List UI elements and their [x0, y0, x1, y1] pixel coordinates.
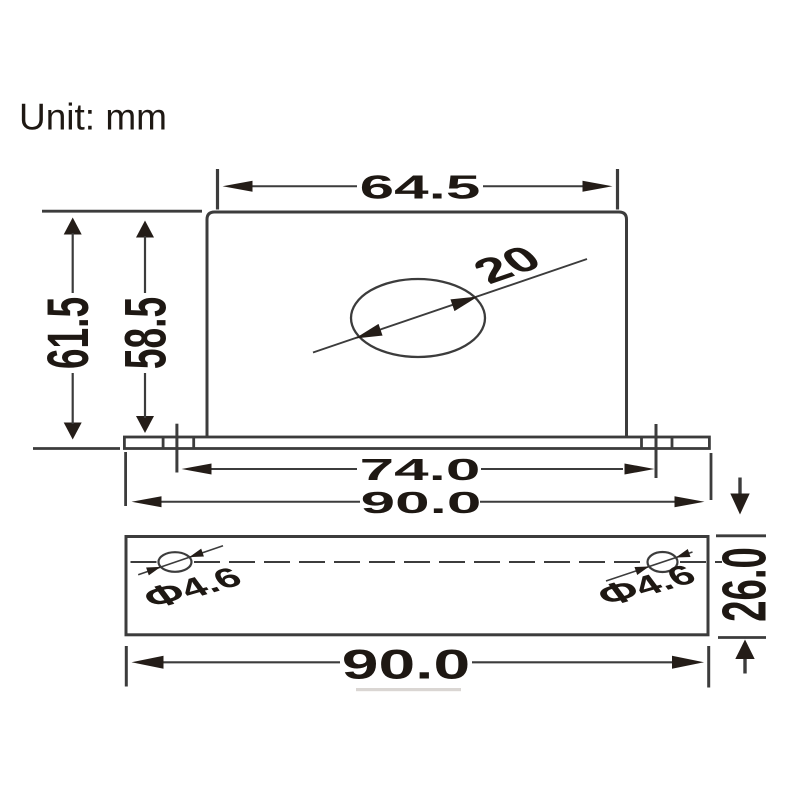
- dim 58.5 arrow down: [136, 416, 154, 433]
- hole leader line left: [138, 546, 223, 575]
- extension line 74.0 right: [655, 424, 658, 478]
- hole arrow right-upper: [675, 549, 691, 561]
- hole arrow left-upper: [188, 549, 204, 561]
- dim 61.5 arrow up: [64, 218, 82, 235]
- center hole ellipse: [351, 279, 485, 357]
- dim 64.5 tick right: [616, 169, 619, 210]
- extension line 90.0 top-view left: [124, 452, 127, 506]
- svg-text:Unit: mm: Unit: mm: [19, 97, 167, 138]
- dim 74.0 line right: [481, 468, 623, 470]
- dim 58.5 line upper: [144, 236, 146, 293]
- extension line 90.0 bottom-view left: [125, 646, 128, 687]
- svg-text:26.0: 26.0: [709, 547, 779, 622]
- dim 90.0 bottom-view line right: [472, 661, 676, 663]
- extension line 74.0 left: [175, 424, 178, 473]
- hole arrow right-lower: [634, 563, 650, 575]
- extension line 90.0 bottom-view right: [707, 646, 710, 688]
- diameter arrow upper right: [450, 291, 480, 311]
- hole leader line right: [606, 552, 693, 581]
- dim 61.5 line lower: [72, 373, 74, 424]
- diameter arrow lower left: [353, 324, 383, 344]
- mount hole right: [648, 552, 678, 572]
- dim 74.0 line left: [210, 468, 357, 470]
- flange slot tick left B: [192, 437, 195, 449]
- ghost artifact under bottom 90.0: [356, 688, 461, 691]
- dim 90.0 top-view line right: [480, 501, 676, 503]
- dim 74.0 arrow left: [182, 464, 212, 475]
- bottom view rectangle: [126, 537, 708, 635]
- svg-text:90.0: 90.0: [361, 486, 482, 520]
- svg-text:58.5: 58.5: [114, 297, 178, 369]
- dim 58.5 arrow up: [136, 221, 154, 238]
- svg-text:64.5: 64.5: [360, 168, 481, 206]
- extension line top left: [42, 210, 202, 213]
- dim 74.0 arrow right: [625, 464, 655, 475]
- hole arrow left-lower: [146, 563, 162, 575]
- dim 58.5 line lower: [144, 373, 146, 418]
- body outline (top view): [207, 212, 627, 437]
- dim 64.5 arrow left: [223, 181, 253, 192]
- dim 90.0 bottom-view line left: [160, 661, 340, 663]
- dim 61.5 line upper: [72, 233, 74, 293]
- flange slot tick right A: [640, 437, 643, 449]
- flange slot tick right B: [671, 437, 674, 449]
- extension line bottom left: [33, 447, 120, 450]
- dim 90.0 bottom-view arrow left: [132, 656, 164, 669]
- flange (mounting base, top view): [124, 437, 709, 449]
- mount hole left: [159, 552, 192, 572]
- hole diameter line: [313, 259, 587, 353]
- dim 61.5 arrow down: [64, 423, 82, 440]
- dashed centerline segment middle: [194, 561, 645, 563]
- extension line 26.0 top: [716, 534, 766, 537]
- dashed centerline segment left: [131, 561, 158, 563]
- dim 64.5 line left: [251, 185, 357, 187]
- gap arrow up (26.0 lower): [735, 640, 754, 660]
- svg-text:74.0: 74.0: [360, 453, 481, 487]
- dim 64.5 line right: [483, 185, 583, 187]
- dim 90.0 top-view arrow right: [675, 496, 705, 507]
- extension line 90.0 top-view right: [710, 453, 713, 500]
- dashed centerline segment right: [680, 561, 722, 563]
- extension line 26.0 bottom: [718, 636, 766, 639]
- gap arrow down (26.0 upper): [738, 478, 741, 496]
- svg-text:61.5: 61.5: [37, 297, 101, 369]
- flange slot tick left A: [162, 437, 165, 449]
- dim 90.0 top-view line left: [160, 501, 360, 503]
- dim 64.5 arrow right: [583, 181, 613, 192]
- dim 64.5 tick left: [216, 169, 219, 210]
- dim 90.0 bottom-view arrow right: [672, 656, 704, 669]
- svg-text:90.0: 90.0: [342, 641, 470, 688]
- dim 90.0 top-view arrow left: [132, 496, 162, 507]
